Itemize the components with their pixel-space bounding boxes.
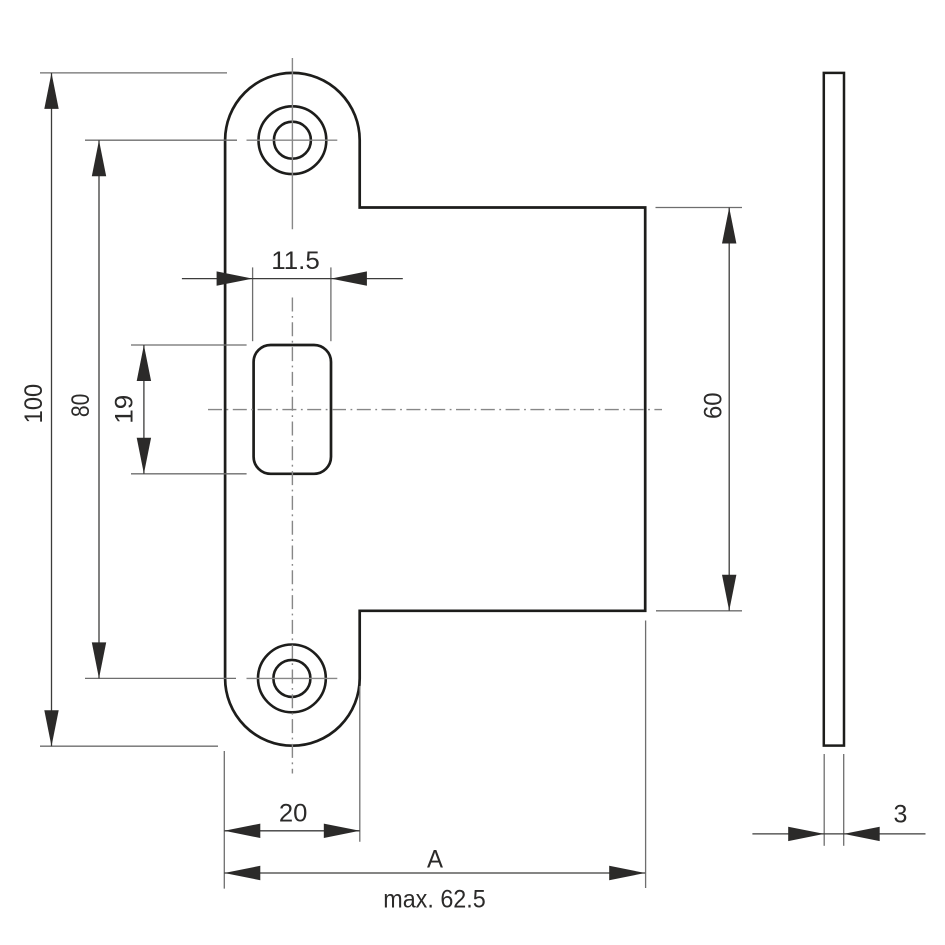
top hole vertical crosshair xyxy=(291,58,293,229)
svg-text:100: 100 xyxy=(20,384,48,424)
dimension 3 xyxy=(752,754,925,846)
dimension 11.5 xyxy=(182,247,403,341)
horizontal centerline xyxy=(208,409,662,411)
svg-text:20: 20 xyxy=(279,799,308,827)
svg-text:3: 3 xyxy=(894,801,908,829)
dimension 19 xyxy=(111,345,247,474)
top screw hole inner circle xyxy=(274,122,311,159)
bottom screw hole inner circle xyxy=(273,660,310,697)
dimension A max. 62.5 xyxy=(224,621,645,914)
dimension 80 xyxy=(67,140,237,678)
vertical centerline xyxy=(291,298,293,774)
dimension 20 xyxy=(224,686,359,889)
svg-text:max. 62.5: max. 62.5 xyxy=(383,885,486,913)
bottom screw hole outer circle xyxy=(258,645,326,713)
latch cutout rounded rectangle xyxy=(254,345,331,474)
dimension 100 xyxy=(20,73,227,746)
svg-text:19: 19 xyxy=(111,395,139,424)
svg-text:A: A xyxy=(427,845,443,873)
bottom hole horizontal crosshair xyxy=(247,677,338,679)
side view plate xyxy=(824,73,844,746)
top screw hole outer circle xyxy=(259,106,327,174)
dimension 60 xyxy=(656,208,743,611)
top hole horizontal crosshair xyxy=(247,139,338,141)
svg-text:80: 80 xyxy=(67,394,95,418)
front view plate outline xyxy=(225,73,645,746)
svg-text:60: 60 xyxy=(700,393,728,420)
svg-text:11.5: 11.5 xyxy=(271,247,320,275)
